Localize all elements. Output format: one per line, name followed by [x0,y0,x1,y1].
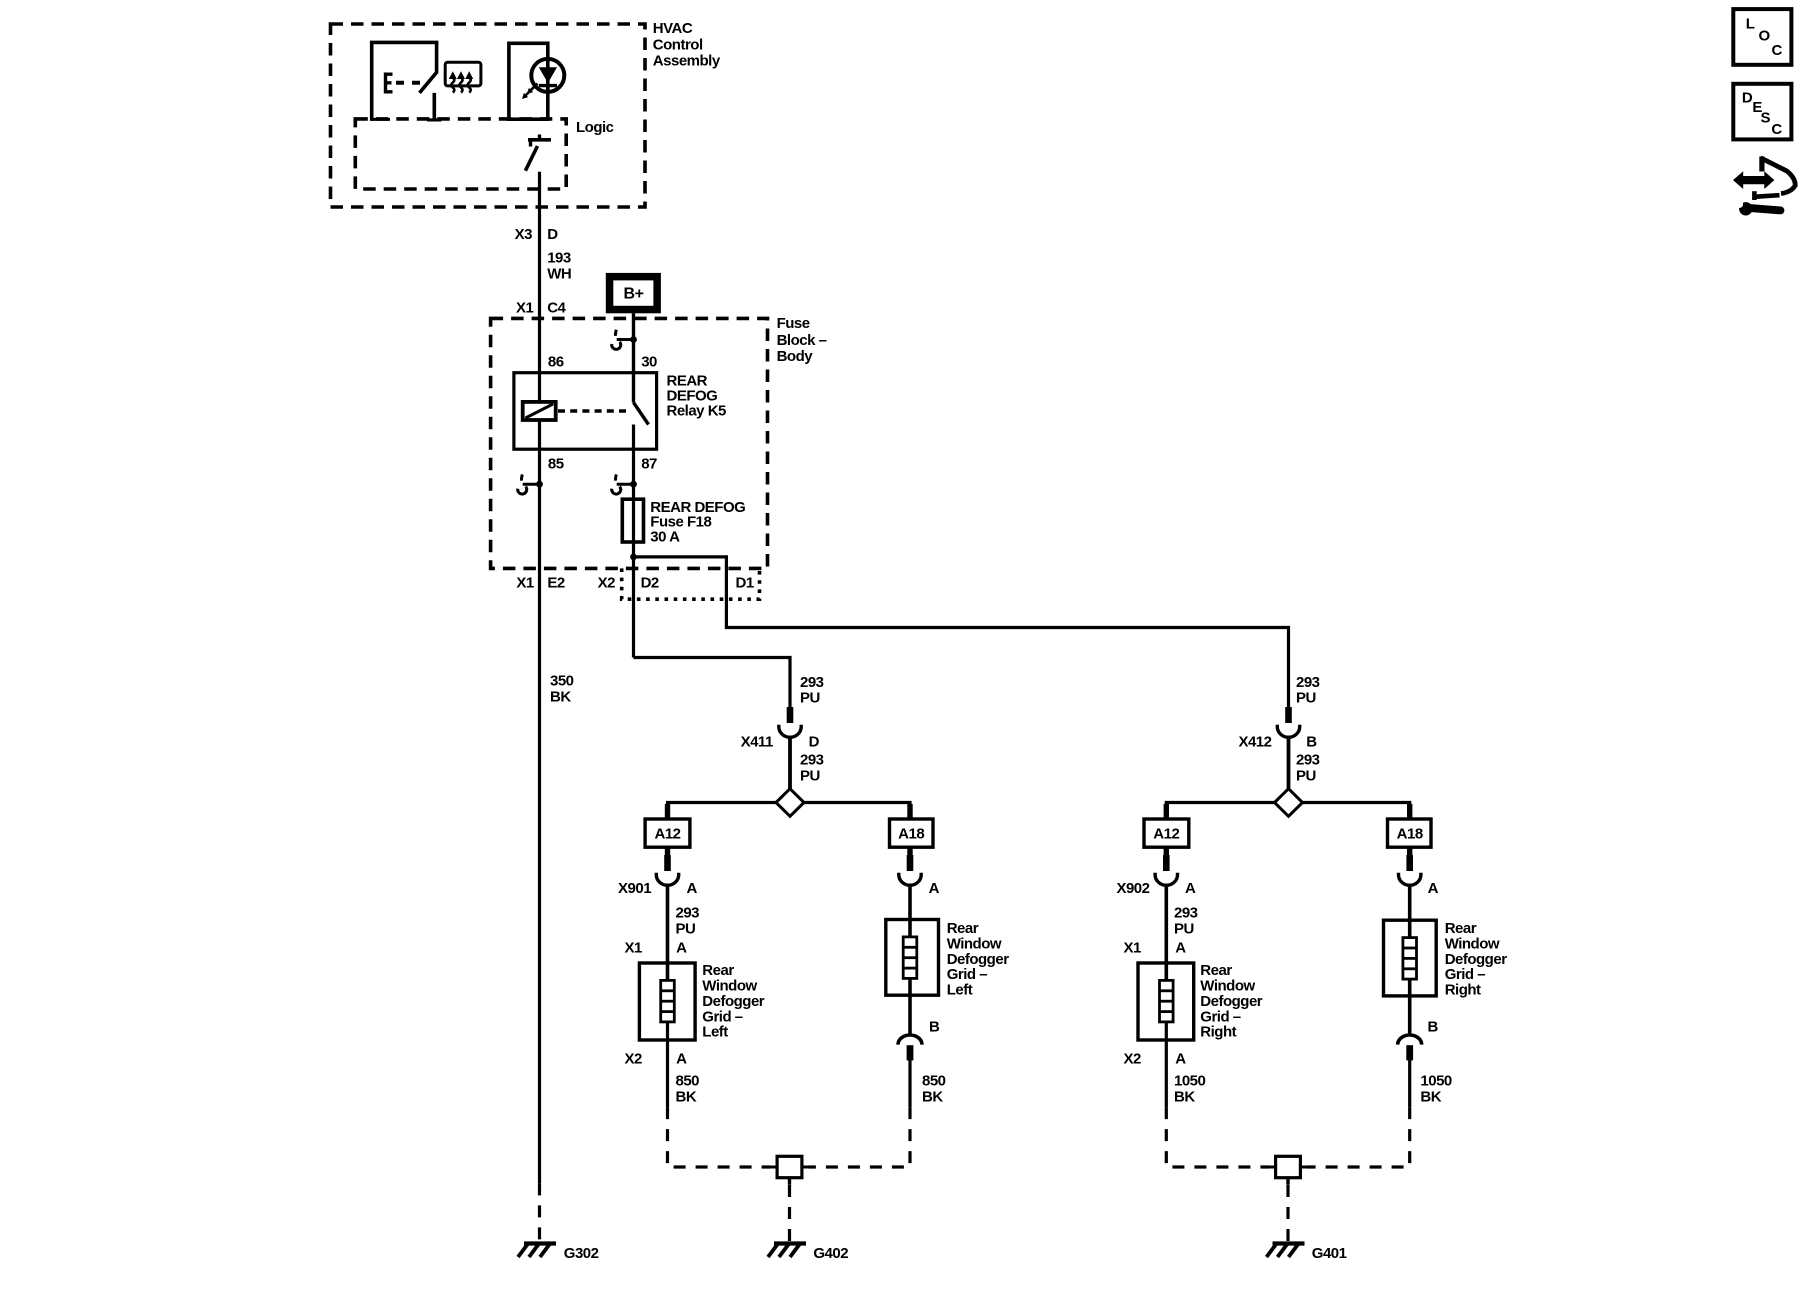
relay switch lever 30-87 [634,403,649,425]
svg-text:X412: X412 [1238,734,1271,751]
LOC legend box [1733,9,1791,65]
wire label 293 PU above X411 [800,674,824,707]
svg-text:D1: D1 [736,574,754,591]
svg-text:X411: X411 [741,734,773,751]
node X2 pin D2 [598,574,659,591]
svg-text:350: 350 [550,673,574,690]
wire: splice row to A12/A18 (left) [668,803,911,820]
svg-text:C: C [1772,42,1783,59]
wire: B+ to relay pin 30 [632,313,635,402]
grid element (ladder) [661,980,675,1022]
ground G401 [1267,1244,1305,1258]
wire: relay pin 87 to fuse F18 and junction [632,425,635,658]
in-line connector X411 pin D [779,707,801,737]
svg-text:X2: X2 [1123,1050,1141,1067]
dashed wire to ground G401 [1286,1185,1289,1247]
DESC legend box [1733,84,1791,140]
svg-text:E2: E2 [547,574,565,591]
Rear Window Defogger Grid - Right (lower) box [1138,962,1263,1041]
terminal A12 box (right) [1144,819,1189,847]
svg-text:PU: PU [1296,767,1316,784]
svg-text:WH: WH [547,265,571,282]
wire: grid to B connector [1408,979,1412,1035]
wire: grid to B connector [908,978,912,1035]
logic switch contact [525,135,551,171]
connector pin B (right) [1398,1035,1422,1060]
svg-text:Logic: Logic [576,119,614,136]
svg-text:PU: PU [800,767,820,784]
svg-text:1050: 1050 [1174,1072,1206,1089]
svg-text:C: C [1771,121,1782,138]
ground splice box G401 [1269,1156,1307,1185]
wire label 293 PU below X411 [800,752,824,785]
svg-text:G402: G402 [813,1245,848,1262]
svg-text:A: A [687,880,698,897]
svg-text:G302: G302 [564,1245,599,1262]
wire label 350 BK [550,673,574,706]
svg-text:193: 193 [547,249,571,266]
wire: A18 to right grid of right window [1407,847,1412,856]
svg-text:1050: 1050 [1420,1072,1452,1089]
wire: HVAC output X3-D to relay pin 86 (circuit 193 WH) [538,172,541,403]
svg-text:G401: G401 [1312,1245,1347,1262]
svg-text:PU: PU [1174,920,1194,937]
svg-text:293: 293 [1296,752,1320,769]
relay coil [523,402,556,420]
svg-text:X901: X901 [618,880,651,897]
svg-text:A: A [1175,940,1186,957]
grid element (ladder) [1160,980,1174,1022]
terminal A18 box (left) [890,819,934,847]
svg-text:X902: X902 [1116,880,1149,897]
wire: X411 to splice [788,736,792,801]
connector terminal on pin 85 wire [518,474,543,494]
svg-text:BK: BK [1174,1088,1195,1105]
ground G302 [518,1244,556,1258]
wire: grid X2-A to ground (850 BK) [666,1022,669,1107]
dashed wire to G402 splice (left grid) [668,1107,771,1167]
svg-text:X1: X1 [1123,940,1141,957]
svg-text:Relay K5: Relay K5 [667,403,727,420]
connector X901 below A12 [665,847,670,856]
svg-text:B: B [929,1019,940,1036]
svg-text:PU: PU [676,920,696,937]
svg-text:PU: PU [1296,689,1316,706]
svg-text:B: B [1428,1019,1439,1036]
node X3 pin D [515,226,559,243]
wire: X412 to splice [1287,736,1291,801]
node X2 pin A (left grid) [625,1050,688,1067]
wire: X902-A to grid X1-A (293 PU) [1165,884,1169,981]
defogger heat indicator icon [445,62,481,92]
node X2 pin A (right grid) [1123,1050,1186,1067]
svg-text:A: A [676,940,687,957]
svg-text:Left: Left [702,1024,728,1041]
wire: relay pin 85 to ground G302 (circuit 350 BK) [538,420,541,1183]
terminal A18 box (right) [1388,819,1432,847]
wire: B to ground (850 BK) [908,1060,911,1107]
svg-text:Right: Right [1445,982,1481,999]
node X1 pin A (left grid) [625,940,688,957]
svg-text:Fuse: Fuse [777,315,810,332]
svg-text:D: D [547,226,558,243]
svg-text:D: D [809,734,820,751]
svg-text:D: D [1742,89,1753,106]
ground G402 [768,1244,806,1258]
svg-text:Control: Control [653,36,703,53]
wire label 193 WH [547,249,571,282]
svg-text:B+: B+ [624,286,644,303]
svg-text:293: 293 [800,674,824,691]
svg-text:BK: BK [676,1088,697,1105]
Rear Window Defogger Grid - Left (upper) box [886,920,1009,999]
svg-text:O: O [1759,28,1771,45]
svg-text:A: A [1175,1050,1186,1067]
battery feed B+ [606,273,661,313]
connector pin B (left) [898,1035,922,1060]
svg-text:Block –: Block – [777,332,827,349]
wire: grid X2-A to ground (1050 BK) [1165,1022,1168,1107]
svg-text:850: 850 [676,1072,700,1089]
svg-text:X1: X1 [516,299,534,316]
svg-text:293: 293 [1296,674,1320,691]
svg-text:BK: BK [1420,1088,1441,1105]
svg-text:S: S [1761,109,1771,126]
wire label 293 PU above X412 [1296,674,1320,707]
Fuse Block - Body box [491,315,827,568]
svg-text:HVAC: HVAC [653,20,693,37]
grid element (ladder) [903,937,917,979]
connector X902 below A12 [1164,847,1169,856]
svg-text:A: A [929,880,940,897]
navigation icon: wrench [1736,201,1780,216]
dashed wire to G401 splice (right side) [1307,1107,1410,1167]
connector terminal on pin 87 wire [612,474,637,494]
svg-text:A: A [676,1050,687,1067]
connector X2 pins D2 D1 dotted box [622,568,760,599]
svg-text:293: 293 [800,752,824,769]
wire: X901-A to grid X1-A (293 PU) [666,884,670,981]
svg-text:A12: A12 [654,826,680,843]
HVAC Control Assembly box [331,20,721,207]
svg-text:Body: Body [777,348,814,365]
svg-text:PU: PU [800,689,820,706]
junction node below fuse [630,554,637,561]
node X1 pin A (right grid) [1123,940,1186,957]
svg-text:L: L [1746,15,1755,32]
terminal stub into A12 (left) [665,804,670,819]
grid element (ladder) [1403,938,1417,980]
terminal stub into A18 (right) [1407,804,1412,819]
defog switch S1 [372,42,442,121]
svg-text:A: A [1185,880,1196,897]
Rear Window Defogger Grid - Left (lower) box [639,962,764,1041]
dashed wire to ground G402 [788,1185,791,1247]
svg-text:B: B [1306,734,1317,751]
svg-text:X1: X1 [516,574,534,591]
splice S1 diamond [776,789,804,817]
svg-text:87: 87 [641,456,657,473]
svg-text:X2: X2 [625,1050,643,1067]
wire: junction to X411 branch (left rear window, circuit 293 PU) [634,658,791,708]
dashed wire to G401 splice (left side) [1166,1107,1269,1167]
navigation icon: double arrow [1733,171,1774,189]
svg-text:293: 293 [676,904,700,921]
node X1 pin E2 [516,574,565,591]
wire: splice row to A12/A18 (right) [1166,803,1409,820]
terminal stub into A18 (left) [907,804,912,819]
svg-text:A18: A18 [898,826,924,843]
svg-text:30 A: 30 A [650,529,680,546]
relay K5 REAR DEFOG box [514,373,726,450]
connector terminal on pin 30 feed [612,330,637,350]
terminal A12 box (left) [645,819,690,847]
dashed wire to G402 splice (right side of left window) [809,1107,911,1167]
svg-text:Right: Right [1200,1024,1236,1041]
svg-text:C4: C4 [547,299,566,316]
svg-text:Left: Left [947,982,973,999]
splice S2 diamond [1275,789,1303,817]
wire: B to ground (1050 BK) [1408,1060,1411,1107]
svg-text:D2: D2 [641,574,659,591]
fuse F18 REAR DEFOG 30A [622,499,745,546]
svg-text:293: 293 [1174,904,1198,921]
svg-text:Assembly: Assembly [653,52,721,69]
navigation icon: outline arrow [1754,157,1795,201]
Rear Window Defogger Grid - Right (upper) box [1384,920,1508,999]
terminal stub into A12 (right) [1164,804,1169,819]
ground splice box G402 [771,1156,809,1185]
svg-text:A12: A12 [1153,826,1179,843]
svg-text:X2: X2 [598,574,616,591]
svg-text:A18: A18 [1397,826,1423,843]
node X1 pin C4 [516,299,567,316]
svg-text:BK: BK [922,1088,943,1105]
svg-text:85: 85 [548,456,564,473]
svg-text:850: 850 [922,1072,946,1089]
svg-text:X1: X1 [625,940,643,957]
Logic box [355,119,613,189]
wire: junction to X412 branch (right rear window) [634,557,1289,708]
wire label 293 PU below X412 [1296,752,1320,785]
in-line connector X412 pin B [1277,707,1299,737]
svg-text:86: 86 [548,353,564,370]
dashed wire 350 BK to ground G302 [538,1183,541,1240]
indicator LED D1 box [509,43,564,119]
svg-text:X3: X3 [515,226,533,243]
relay mechanical link (dashed) [558,409,628,413]
svg-text:A: A [1428,880,1439,897]
wire: A18 to right grid of left window [907,847,912,856]
svg-text:30: 30 [641,353,657,370]
svg-text:BK: BK [550,689,571,706]
